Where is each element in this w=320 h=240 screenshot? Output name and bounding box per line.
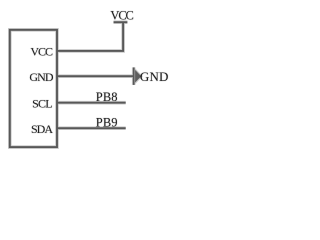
svg-text:VCC: VCC: [30, 44, 53, 58]
wire GND pin to ground symbol: [57, 75, 133, 77]
wire halo under-layer: [10, 22, 141, 147]
ground symbol triangle: [135, 70, 141, 83]
svg-text:PB9: PB9: [96, 115, 118, 129]
svg-text:VCC: VCC: [110, 8, 133, 22]
wire SDA pin net PB9: [57, 127, 126, 129]
ground symbol bar: [133, 67, 135, 85]
svg-text:SDA: SDA: [31, 122, 53, 136]
svg-text:SCL: SCL: [32, 96, 53, 110]
IC box U1: [10, 30, 57, 147]
svg-text:GND: GND: [29, 70, 53, 84]
wire SCL pin net PB8: [57, 102, 126, 104]
wire VCC pin to power symbol: [57, 22, 123, 51]
svg-text:GND: GND: [140, 69, 169, 84]
svg-text:PB8: PB8: [96, 90, 118, 104]
power symbol VCC bar: [114, 21, 128, 23]
